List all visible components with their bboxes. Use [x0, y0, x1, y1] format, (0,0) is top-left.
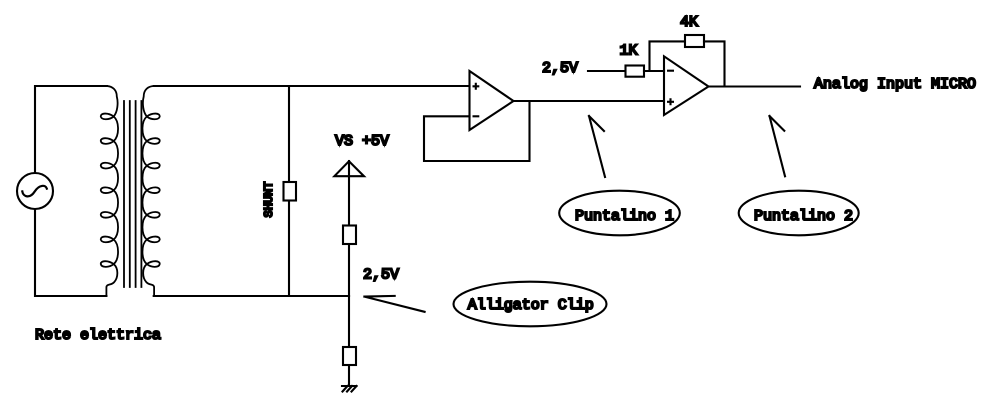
svg-text:Alligator Clip: Alligator Clip: [468, 297, 594, 314]
ground: [342, 386, 357, 392]
wire: shunt branch: [288, 86, 290, 296]
op-amp U2 + pin label: [667, 98, 674, 105]
wire: secondary bottom rail: [154, 295, 349, 297]
callout ellipse Puntalino 1: [559, 191, 680, 236]
wire: 2,5V to resistor 1K: [588, 70, 626, 72]
svg-text:1K: 1K: [620, 43, 638, 60]
svg-text:2,5V: 2,5V: [363, 267, 399, 284]
svg-text:4K: 4K: [680, 14, 698, 31]
resistor R_up (VS branch): [343, 226, 356, 245]
op-amp U2: [664, 56, 709, 115]
wire: VS branch vertical: [348, 161, 350, 296]
leader arrow Puntalino 1: [589, 116, 605, 177]
svg-text:Puntalino 2: Puntalino 2: [754, 208, 853, 225]
op-amp U1: [470, 71, 514, 130]
svg-text:2,5V: 2,5V: [542, 60, 578, 77]
op-amp U1 - pin label: [473, 115, 480, 117]
wire: op-amp U2 output: [709, 85, 801, 87]
callout ellipse Alligator Clip: [454, 282, 607, 327]
transformer T1 core: [124, 101, 141, 287]
AC source V1: [17, 173, 53, 209]
wire: AC source bottom lead: [35, 209, 106, 296]
resistor 4K: [685, 35, 704, 47]
svg-text:Analog Input MICRO: Analog Input MICRO: [814, 76, 976, 93]
wire: 4K to output node: [704, 41, 725, 86]
svg-text:Puntalino 1: Puntalino 1: [575, 208, 674, 225]
callout ellipse Puntalino 2: [739, 191, 859, 236]
AC source sine wave: [22, 186, 47, 197]
transformer T1 secondary winding: [142, 86, 159, 296]
wire: feedback junction up: [650, 41, 686, 71]
op-amp U2 - pin label: [667, 70, 674, 72]
power symbol VS +5V: [334, 161, 364, 176]
wire: lower divider branch: [348, 296, 350, 386]
wire: secondary top rail to op-amp U1 + input: [154, 85, 470, 87]
leader arrow Alligator Clip: [364, 296, 424, 312]
leader arrow Puntalino 2: [770, 116, 786, 176]
resistor 1K: [626, 66, 645, 77]
resistor R_down (to ground): [343, 347, 356, 365]
op-amp U1 + pin label: [473, 83, 480, 90]
svg-text:VS +5V: VS +5V: [335, 133, 389, 150]
wire: op-amp U1 feedback loop: [424, 101, 530, 161]
transformer T1 primary winding: [101, 86, 118, 296]
svg-text:Rete elettrica: Rete elettrica: [35, 327, 161, 344]
wire: 1K to U2 - input: [644, 70, 664, 72]
wire: AC source top lead: [35, 86, 107, 173]
resistor SHUNT: [284, 182, 297, 201]
svg-text:SHUNT: SHUNT: [262, 181, 276, 217]
wire: op-amp U1 output to op-amp U2 + input: [514, 100, 665, 102]
